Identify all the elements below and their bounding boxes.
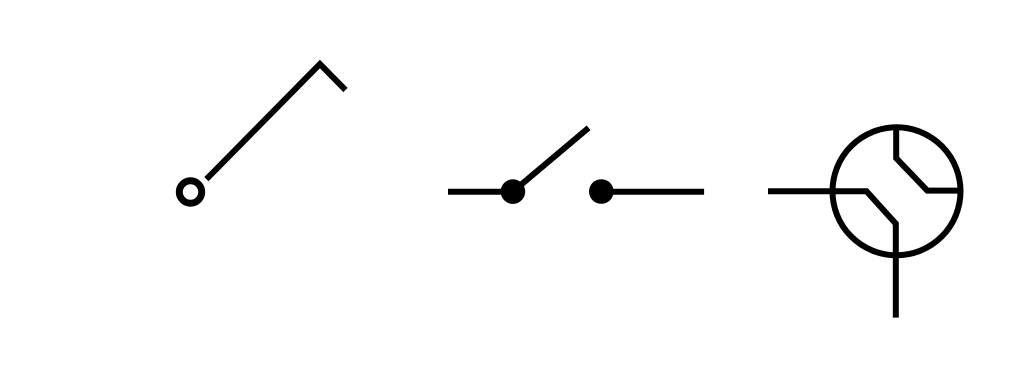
changeover contact K1 enclosure circle — [833, 127, 961, 255]
switch S2 right contact dot — [589, 179, 614, 204]
switch S1 open terminal (ring) — [179, 181, 201, 203]
switch S2 left wire — [448, 189, 513, 195]
switch S2 right wire — [601, 189, 704, 195]
changeover contact K1 upper contact path — [896, 125, 959, 191]
switch S1 lever arm with bent tip — [206, 64, 345, 179]
changeover contact K1 left lead and lower contact path — [768, 191, 896, 317]
switch S2 lever (open) — [513, 128, 589, 192]
switch S2 left contact dot — [501, 179, 526, 204]
